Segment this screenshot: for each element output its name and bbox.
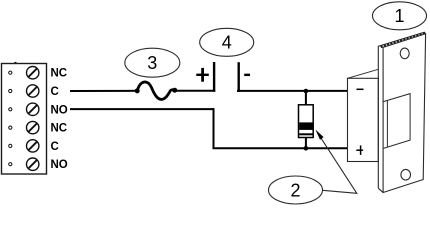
terminal 2 screw (C) [9,85,39,97]
screw hole top [400,48,409,59]
diode D1 second band [299,133,312,135]
callout 2 leader line [320,137,357,194]
terminal block body [2,62,47,174]
svg-text:4: 4 [222,33,232,53]
strike body box [348,78,379,161]
svg-text:C: C [51,141,59,153]
wire fuse to positive riser [175,90,216,92]
wire negative to strike top [237,90,348,92]
junction dot fuse right [172,88,177,93]
callout 3 ellipse [125,48,180,77]
label - power negative [244,74,250,76]
svg-text:NO: NO [51,159,68,171]
diode D1 cathode band [299,122,312,129]
diode D1 body [299,105,314,138]
strike faceplate front face [383,34,426,193]
label + strike positive terminal [356,145,363,155]
terminal 6 screw (NO) [9,158,39,170]
label - strike negative terminal [357,88,364,90]
wire negative riser [237,62,239,92]
strike faceplate bottom thickness edge [378,188,383,192]
label + power positive [196,68,209,82]
svg-text:1: 1 [394,6,404,26]
wire NO terminal run [70,108,214,110]
wire NO to strike bottom [213,147,348,149]
strike faceplate top thickness hatch [381,33,425,47]
svg-text:NO: NO [51,104,68,116]
wire C terminal to fuse [70,90,137,92]
svg-text:2: 2 [290,180,300,200]
svg-text:3: 3 [147,53,157,73]
strike body top face edge [348,69,379,78]
terminal 1 screw (NC) [9,67,39,79]
terminal 4 screw (NC) [9,121,39,133]
svg-text:NC: NC [51,123,68,135]
callout 2 ellipse [269,176,323,204]
diode D1 top lead [305,91,307,105]
strike faceplate back edge [378,32,425,188]
callout 1 ellipse [373,2,427,30]
junction dot diode bottom [304,146,309,151]
wire NO drop [213,108,215,148]
terminal 5 screw (C) [9,140,39,152]
screw hole bottom [401,169,411,180]
junction dot diode top [304,89,309,94]
junction dot fuse left [135,88,140,93]
latch cutout depth line [386,100,388,147]
callout 2 arrowhead [315,130,323,140]
latch cutout opening [383,94,410,149]
callout 4 ellipse [200,28,254,56]
svg-text:C: C [51,86,59,98]
fuse jumper wave (callout 3 item) [137,82,174,99]
wire positive riser [213,62,215,92]
diode D1 bottom lead [305,138,307,149]
terminal 3 screw (NO) [9,103,39,115]
svg-text:NC: NC [51,68,68,80]
